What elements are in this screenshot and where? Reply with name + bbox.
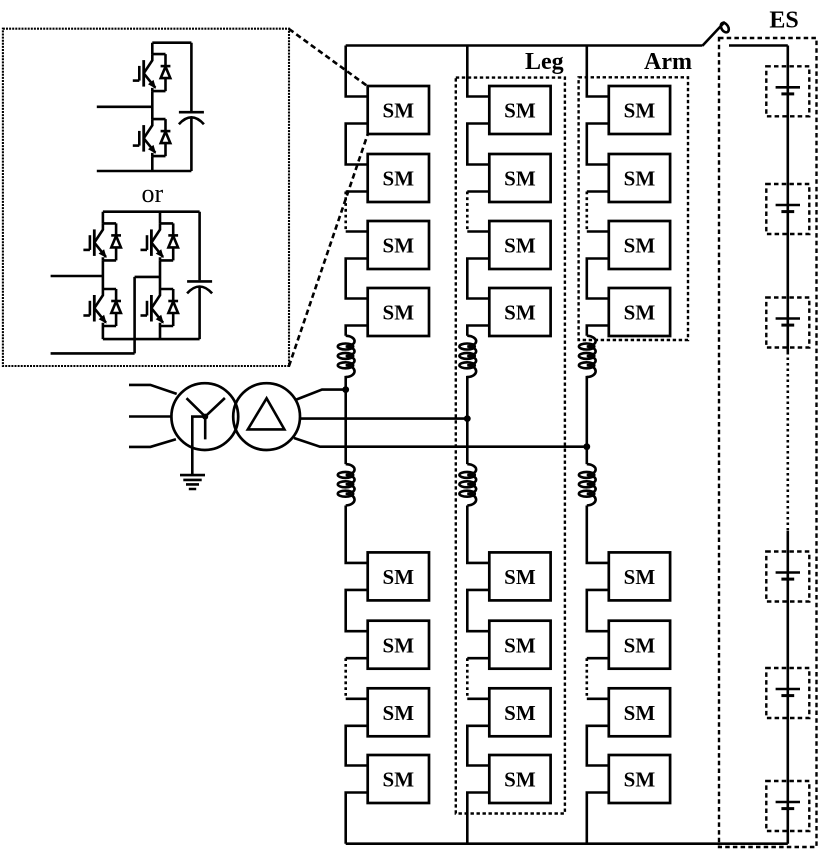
svg-text:Leg: Leg bbox=[525, 49, 564, 75]
svg-text:Arm: Arm bbox=[644, 49, 692, 75]
svg-text:ES: ES bbox=[769, 8, 798, 34]
svg-text:or: or bbox=[141, 179, 163, 208]
